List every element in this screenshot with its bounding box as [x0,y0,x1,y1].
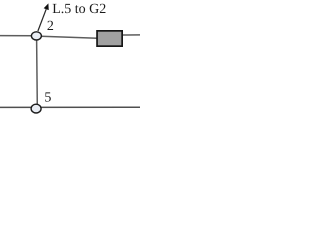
arrow to L.5/G2 [38,3,49,31]
node 5 [31,91,51,114]
svg-text:5: 5 [44,91,51,106]
wire resistor box to right edge [122,34,140,36]
svg-text:2: 2 [47,19,54,34]
resistor box [97,31,122,46]
wire node 2 to node 5 (vertical) [36,38,39,106]
node 2 [31,19,54,40]
wire node 2 to resistor box [41,36,98,38]
wire bottom bus through node 5 [0,106,140,108]
svg-text:L.5 to G2: L.5 to G2 [52,2,106,17]
wire top-left to node 2 [0,35,36,37]
